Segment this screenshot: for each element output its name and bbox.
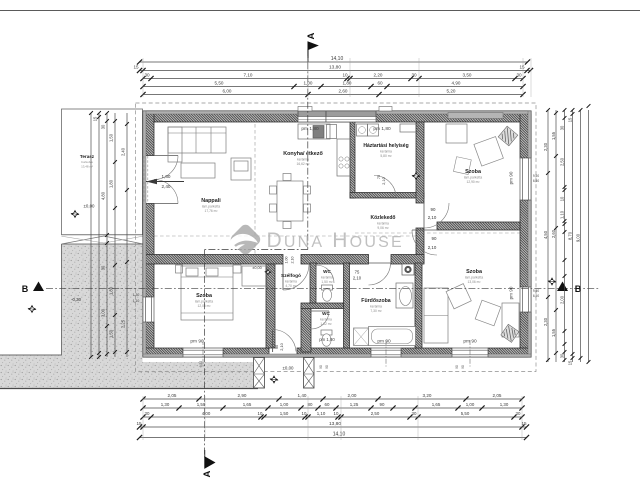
svg-text:Fürdőszoba: Fürdőszoba (361, 298, 391, 304)
svg-text:90: 90 (461, 365, 465, 369)
svg-text:pm 1,80: pm 1,80 (319, 337, 335, 342)
svg-text:2,50: 2,50 (371, 411, 380, 416)
svg-text:1,50: 1,50 (280, 411, 289, 416)
svg-text:A: A (202, 470, 213, 477)
svg-text:2,60: 2,60 (339, 89, 348, 94)
svg-text:10: 10 (559, 196, 564, 201)
svg-text:kerámia: kerámia (380, 149, 392, 153)
svg-text:30: 30 (144, 73, 150, 78)
svg-text:4,70 m²: 4,70 m² (285, 284, 297, 288)
svg-text:1,00: 1,00 (466, 402, 475, 407)
svg-text:13,06 m²: 13,06 m² (467, 280, 481, 284)
svg-text:7,10: 7,10 (244, 73, 253, 78)
svg-text:30: 30 (516, 411, 521, 416)
svg-text:kerámia: kerámia (377, 221, 389, 225)
svg-text:9,06 m²: 9,06 m² (377, 226, 389, 230)
svg-text:3,20: 3,20 (423, 393, 432, 398)
svg-text:15: 15 (567, 360, 572, 365)
svg-text:Terasz: Terasz (80, 154, 95, 159)
svg-text:10: 10 (334, 411, 339, 416)
svg-text:1,80: 1,80 (343, 81, 352, 86)
svg-text:B: B (22, 284, 29, 294)
svg-text:14,10: 14,10 (333, 432, 346, 438)
svg-text:1,80: 1,80 (108, 286, 113, 295)
svg-text:90: 90 (432, 236, 437, 241)
svg-text:1,30: 1,30 (161, 402, 170, 407)
svg-text:1,30: 1,30 (500, 402, 509, 407)
svg-text:4,00: 4,00 (202, 411, 211, 416)
svg-text:15: 15 (136, 421, 142, 426)
svg-text:90: 90 (431, 207, 436, 212)
svg-text:16,62 m²: 16,62 m² (296, 162, 310, 166)
svg-text:4,80: 4,80 (100, 191, 105, 200)
svg-text:5,20: 5,20 (447, 89, 456, 94)
svg-text:kerámia: kerámia (370, 304, 382, 308)
svg-text:1,00: 1,00 (285, 257, 289, 264)
svg-text:pm 90: pm 90 (190, 339, 204, 345)
svg-text:2,60: 2,60 (551, 229, 556, 238)
svg-text:2,50: 2,50 (559, 157, 564, 166)
svg-text:-0,30: -0,30 (71, 297, 82, 302)
svg-text:13,80: 13,80 (329, 421, 341, 427)
svg-text:kerámia: kerámia (285, 279, 297, 283)
svg-text:90: 90 (325, 365, 329, 369)
svg-text:1,80: 1,80 (108, 179, 113, 188)
svg-text:Szélfogó: Szélfogó (281, 273, 301, 279)
svg-text:12,90 m²: 12,90 m² (466, 180, 480, 184)
svg-text:lam.parketta: lam.parketta (465, 275, 483, 279)
svg-text:9,00: 9,00 (575, 233, 580, 242)
svg-text:9,50: 9,50 (533, 289, 539, 293)
svg-text:2,05: 2,05 (493, 393, 502, 398)
svg-text:60: 60 (377, 81, 383, 86)
svg-text:2,10: 2,10 (291, 257, 295, 264)
svg-text:2,40: 2,40 (120, 147, 125, 156)
svg-text:Szoba: Szoba (465, 169, 482, 175)
svg-text:1,65: 1,65 (243, 402, 252, 407)
svg-text:1,50 m²: 1,50 m² (321, 280, 333, 284)
svg-text:Közlekedő: Közlekedő (370, 215, 395, 221)
svg-text:9,52: 9,52 (199, 361, 203, 367)
svg-text:15: 15 (92, 116, 97, 121)
svg-text:15: 15 (519, 65, 525, 70)
svg-text:1,10: 1,10 (133, 299, 140, 303)
svg-text:2,10: 2,10 (428, 245, 437, 250)
svg-text:kerámia: kerámia (297, 157, 309, 161)
svg-text:6,50: 6,50 (533, 294, 539, 298)
svg-text:9,50: 9,50 (533, 174, 539, 178)
svg-text:±0,00: ±0,00 (252, 266, 261, 270)
svg-text:2,90: 2,90 (238, 393, 247, 398)
svg-text:1,50: 1,50 (108, 133, 113, 142)
svg-text:80: 80 (308, 402, 313, 407)
svg-text:lam.parketta: lam.parketta (195, 299, 213, 303)
svg-text:±0,00: ±0,00 (84, 204, 96, 209)
svg-text:kerámia: kerámia (321, 275, 333, 279)
svg-text:13,80: 13,80 (329, 65, 341, 71)
svg-text:4,90: 4,90 (452, 81, 461, 86)
svg-text:5,50: 5,50 (461, 411, 470, 416)
svg-text:7,30 m²: 7,30 m² (370, 309, 382, 313)
svg-text:±0,00: ±0,00 (283, 366, 295, 371)
svg-text:10: 10 (302, 411, 307, 416)
svg-text:lam.parketta: lam.parketta (464, 175, 482, 179)
svg-text:1,10: 1,10 (559, 210, 564, 219)
svg-text:10: 10 (342, 73, 348, 78)
svg-text:30: 30 (100, 265, 105, 270)
svg-text:Szoba: Szoba (466, 269, 483, 275)
svg-text:1,62 m²: 1,62 m² (320, 322, 332, 326)
svg-text:6,00: 6,00 (223, 89, 232, 94)
svg-text:pm 90: pm 90 (509, 171, 514, 184)
svg-text:WC: WC (322, 311, 330, 316)
svg-text:1,50: 1,50 (108, 329, 113, 338)
svg-text:2,05: 2,05 (168, 393, 177, 398)
svg-text:6,50: 6,50 (533, 179, 539, 183)
svg-text:10: 10 (258, 411, 263, 416)
svg-text:pm 90: pm 90 (377, 339, 391, 345)
svg-text:lam.parketta: lam.parketta (202, 204, 220, 208)
svg-text:90: 90 (380, 402, 385, 407)
svg-text:1,55: 1,55 (551, 131, 556, 140)
svg-text:5,80 m²: 5,80 m² (380, 154, 392, 158)
svg-text:2,00: 2,00 (348, 393, 357, 398)
svg-text:15: 15 (133, 65, 139, 70)
svg-text:90: 90 (455, 365, 459, 369)
svg-text:30: 30 (559, 125, 564, 130)
svg-text:17,76 m²: 17,76 m² (204, 209, 218, 213)
svg-text:90: 90 (319, 365, 323, 369)
svg-text:60: 60 (325, 402, 330, 407)
svg-text:3,50: 3,50 (463, 73, 472, 78)
svg-text:2,20: 2,20 (374, 73, 383, 78)
svg-text:2,30: 2,30 (543, 142, 548, 151)
svg-text:2,10: 2,10 (382, 177, 386, 184)
svg-text:1,40: 1,40 (298, 393, 307, 398)
svg-text:kerámia: kerámia (320, 317, 332, 321)
svg-text:1,10: 1,10 (317, 411, 326, 416)
svg-text:4,50: 4,50 (543, 230, 548, 239)
svg-text:Nappali: Nappali (201, 198, 221, 204)
svg-text:2,10: 2,10 (353, 276, 362, 281)
svg-text:1,80: 1,80 (162, 174, 171, 179)
svg-text:2,40: 2,40 (162, 184, 171, 189)
svg-text:3,00: 3,00 (100, 308, 105, 317)
svg-text:75: 75 (355, 270, 360, 275)
svg-text:2,30: 2,30 (543, 317, 548, 326)
svg-text:8,70: 8,70 (567, 231, 572, 240)
svg-text:1,55: 1,55 (551, 328, 556, 337)
svg-text:pm 1,80: pm 1,80 (373, 126, 391, 132)
svg-text:2,00: 2,00 (559, 295, 564, 304)
svg-text:1,30: 1,30 (133, 293, 140, 297)
svg-text:30: 30 (559, 353, 564, 358)
svg-text:2,10: 2,10 (279, 342, 284, 350)
svg-text:2,10: 2,10 (428, 215, 437, 220)
svg-text:1,65: 1,65 (432, 402, 441, 407)
svg-text:15: 15 (567, 117, 572, 122)
svg-text:WC: WC (323, 269, 331, 274)
svg-text:1,50: 1,50 (197, 402, 206, 407)
svg-text:Háztartási helyiség: Háztartási helyiség (363, 143, 408, 149)
svg-text:1,25: 1,25 (350, 402, 359, 407)
svg-text:2,25: 2,25 (120, 319, 125, 328)
svg-text:1,00: 1,00 (304, 81, 313, 86)
svg-text:75: 75 (377, 175, 381, 179)
svg-text:pm 1,80: pm 1,80 (301, 126, 319, 132)
svg-text:14,10: 14,10 (331, 56, 344, 62)
svg-text:30: 30 (100, 124, 105, 129)
svg-text:Konyha/ étkező: Konyha/ étkező (283, 151, 323, 157)
svg-text:30: 30 (516, 73, 522, 78)
svg-text:1,00: 1,00 (280, 402, 289, 407)
svg-text:5,50: 5,50 (215, 81, 224, 86)
svg-text:30: 30 (145, 411, 150, 416)
svg-text:15: 15 (521, 421, 527, 426)
svg-text:30: 30 (412, 411, 417, 416)
svg-text:30: 30 (411, 73, 417, 78)
svg-text:A: A (306, 32, 317, 39)
